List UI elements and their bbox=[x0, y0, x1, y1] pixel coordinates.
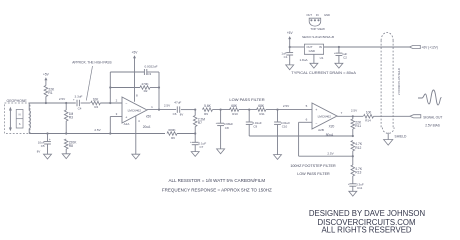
svg-text:2 COND PLUS SHLD: 2 COND PLUS SHLD bbox=[397, 68, 401, 95]
svg-text:LOW PASS FILTER: LOW PASS FILTER bbox=[229, 97, 264, 102]
svg-text:C1: C1 bbox=[284, 55, 288, 59]
svg-text:8V: 8V bbox=[37, 150, 41, 154]
svg-text:R14: R14 bbox=[365, 119, 371, 123]
svg-text:x50: x50 bbox=[146, 115, 151, 119]
svg-text:R7: R7 bbox=[198, 121, 202, 125]
svg-text:+5V: +5V bbox=[132, 50, 139, 54]
svg-text:2.5V: 2.5V bbox=[351, 108, 358, 112]
svg-text:5.6K: 5.6K bbox=[204, 104, 212, 108]
svg-text:+: + bbox=[190, 140, 192, 144]
svg-text:R11: R11 bbox=[355, 124, 361, 128]
svg-text:+: + bbox=[125, 115, 127, 119]
svg-text:ALL RESISTOR = 1/8 WATT 5% CAR: ALL RESISTOR = 1/8 WATT 5% CARBON/FILM bbox=[169, 178, 266, 183]
svg-text:GND: GND bbox=[324, 13, 330, 17]
svg-text:C7: C7 bbox=[200, 145, 204, 149]
svg-text:+: + bbox=[216, 121, 218, 125]
svg-text:SHIELD: SHIELD bbox=[395, 135, 408, 139]
svg-text:C5: C5 bbox=[41, 144, 45, 148]
svg-text:2.5V: 2.5V bbox=[164, 103, 171, 107]
svg-text:S: S bbox=[19, 122, 21, 126]
svg-text:68K: 68K bbox=[231, 104, 238, 108]
svg-text:FREQUENCY RESPONSE = APPROX 5H: FREQUENCY RESPONSE = APPROX 5HZ TO 150HZ bbox=[162, 188, 272, 193]
svg-text:+5V: +5V bbox=[287, 31, 294, 35]
svg-text:20uA: 20uA bbox=[143, 125, 151, 129]
svg-text:TOP VIEW: TOP VIEW bbox=[310, 27, 325, 31]
svg-text:ALL RIGHTS RESERVED: ALL RIGHTS RESERVED bbox=[321, 225, 411, 234]
svg-text:SEIKO S-812C50SZ+B: SEIKO S-812C50SZ+B bbox=[302, 35, 334, 39]
svg-text:U1: U1 bbox=[320, 56, 324, 60]
svg-text:SIGNAL OUT: SIGNAL OUT bbox=[423, 116, 442, 120]
svg-text:C9: C9 bbox=[253, 125, 257, 129]
svg-text:GEOPHONE: GEOPHONE bbox=[6, 99, 27, 103]
svg-text:LOW PASS FILTER: LOW PASS FILTER bbox=[297, 172, 330, 176]
svg-text:2.5V: 2.5V bbox=[327, 151, 334, 155]
svg-text:R1: R1 bbox=[48, 91, 52, 95]
svg-text:470K: 470K bbox=[141, 82, 149, 86]
svg-text:C3: C3 bbox=[147, 72, 151, 76]
svg-text:R10: R10 bbox=[232, 112, 238, 116]
svg-text:APPROX. THE HIGH PASS: APPROX. THE HIGH PASS bbox=[72, 60, 111, 64]
svg-text:LMC6462: LMC6462 bbox=[128, 108, 142, 112]
svg-text:R3: R3 bbox=[69, 116, 73, 120]
svg-text:R13: R13 bbox=[355, 171, 361, 175]
svg-text:N: N bbox=[19, 113, 21, 117]
svg-text:R12: R12 bbox=[355, 146, 361, 150]
svg-text:8V: 8V bbox=[180, 112, 184, 116]
svg-text:C6: C6 bbox=[173, 112, 177, 116]
svg-text:TYPICAL CURRENT DRAIN = 80uA: TYPICAL CURRENT DRAIN = 80uA bbox=[291, 70, 356, 75]
svg-text:+: + bbox=[348, 182, 350, 186]
svg-text:2.5V: 2.5V bbox=[283, 104, 290, 108]
svg-text:0.0022uF: 0.0022uF bbox=[144, 64, 157, 68]
svg-text:2.5V: 2.5V bbox=[94, 128, 101, 132]
svg-text:R11: R11 bbox=[259, 112, 265, 116]
svg-text:1.8uA: 1.8uA bbox=[299, 58, 308, 62]
svg-text:+: + bbox=[315, 108, 317, 112]
svg-text:C4: C4 bbox=[78, 107, 82, 111]
svg-text:R9: R9 bbox=[204, 112, 208, 116]
svg-text:680K: 680K bbox=[168, 128, 176, 132]
svg-text:C2: C2 bbox=[343, 56, 347, 60]
svg-text:IN: IN bbox=[316, 13, 319, 17]
svg-text:DESIGNED BY DAVE JOHNSON: DESIGNED BY DAVE JOHNSON bbox=[309, 209, 425, 218]
svg-text:C8: C8 bbox=[225, 126, 229, 130]
svg-text:+5V: +5V bbox=[43, 72, 50, 76]
svg-text:100HZ FOOTSTEP FILTER: 100HZ FOOTSTEP FILTER bbox=[290, 164, 336, 168]
svg-text:−: − bbox=[315, 122, 317, 126]
svg-text:100: 100 bbox=[366, 111, 372, 115]
svg-text:2.5V: 2.5V bbox=[59, 97, 66, 101]
svg-text:+6V (+12V): +6V (+12V) bbox=[422, 46, 438, 50]
svg-text:+: + bbox=[334, 51, 336, 55]
svg-text:A2B: A2B bbox=[318, 128, 324, 132]
svg-text:3.3uF: 3.3uF bbox=[75, 94, 83, 98]
svg-text:C10: C10 bbox=[282, 125, 288, 129]
svg-text:X20: X20 bbox=[329, 125, 335, 129]
svg-text:GND: GND bbox=[309, 49, 315, 53]
svg-text:C11: C11 bbox=[357, 186, 363, 190]
svg-text:A2A: A2A bbox=[124, 122, 130, 126]
svg-text:LMC6462: LMC6462 bbox=[318, 114, 332, 118]
svg-text:−: − bbox=[125, 102, 127, 106]
svg-text:2.5V BIAS: 2.5V BIAS bbox=[425, 123, 440, 127]
svg-text:47uF: 47uF bbox=[174, 101, 181, 105]
svg-text:OUT: OUT bbox=[306, 13, 312, 17]
svg-text:IN: IN bbox=[319, 45, 322, 49]
svg-text:R8: R8 bbox=[69, 144, 73, 148]
svg-text:R6: R6 bbox=[171, 136, 175, 140]
svg-text:68K: 68K bbox=[258, 104, 265, 108]
svg-text:R4: R4 bbox=[94, 105, 98, 109]
svg-text:10K: 10K bbox=[93, 97, 100, 101]
svg-text:80uA: 80uA bbox=[326, 133, 334, 137]
svg-text:+: + bbox=[49, 138, 51, 142]
svg-text:R2: R2 bbox=[144, 89, 148, 93]
